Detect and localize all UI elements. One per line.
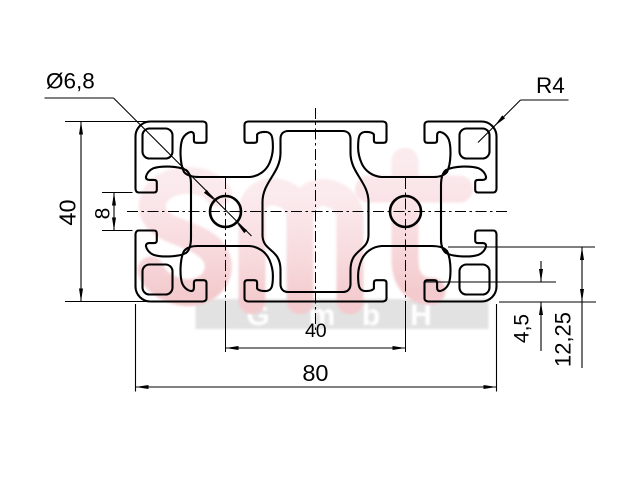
profile outline with T-slots [136, 122, 497, 302]
watermark smt letters [151, 161, 460, 301]
dimension 8 slot width [102, 192, 133, 194]
dimension 40 left [65, 121, 150, 123]
corner screw channel 2 [460, 129, 490, 159]
dimension 4,5 lip depth [424, 281, 556, 283]
corner screw channel 4 [460, 265, 490, 295]
corner screw channel 3 [143, 265, 173, 295]
corner screw channel 1 [143, 129, 173, 159]
svg-text:8: 8 [92, 208, 115, 220]
center line middle [315, 108, 317, 333]
dimension 12,25 slot depth [448, 246, 595, 248]
hole left [210, 196, 241, 227]
center line hole right [405, 178, 407, 302]
center line horizontal [127, 211, 509, 213]
svg-text:40: 40 [55, 199, 81, 225]
svg-text:R4: R4 [536, 73, 565, 98]
dimension 80 overall width [135, 304, 137, 392]
svg-text:40: 40 [305, 320, 327, 342]
watermark text GmbH [246, 299, 432, 332]
svg-text:b: b [362, 299, 380, 332]
center line hole left [225, 178, 227, 302]
svg-text:Ø6,8: Ø6,8 [46, 69, 95, 94]
svg-text:12,25: 12,25 [551, 312, 576, 367]
watermark gray bar [196, 299, 489, 329]
svg-text:4,5: 4,5 [511, 314, 534, 343]
dimension 40 hole spacing [226, 347, 406, 349]
svg-text:80: 80 [302, 360, 328, 386]
central cavity [263, 131, 369, 292]
hole right [390, 196, 421, 227]
